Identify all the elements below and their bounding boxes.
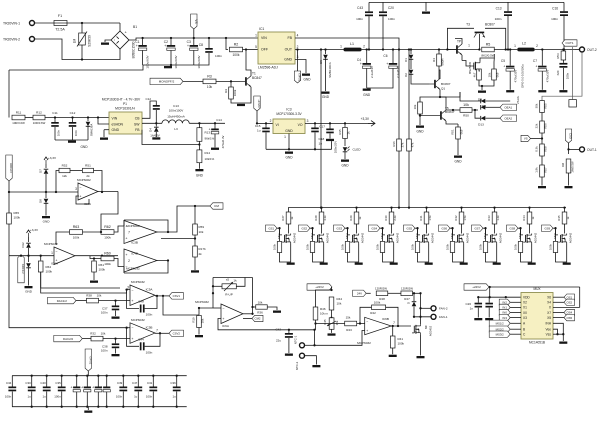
svg-text:T3: T3: [466, 23, 470, 27]
svg-text:100k: 100k: [14, 216, 21, 220]
ground: [493, 263, 501, 265]
svg-text:−: −: [366, 320, 368, 324]
resistor R12: [33, 115, 45, 120]
junction: [87, 116, 89, 118]
net label MONOFF/2: [150, 78, 183, 84]
svg-text:24V: 24V: [357, 292, 362, 296]
svg-text:C3: C3: [187, 40, 191, 44]
svg-text:0.3k: 0.3k: [535, 146, 539, 152]
wire C14: [214, 123, 216, 128]
junction: [329, 122, 331, 124]
svg-text:3: 3: [75, 187, 77, 191]
wire adc2: [8, 181, 10, 192]
svg-text:MF5: MF5: [415, 233, 419, 239]
svg-text:GS7: GS7: [474, 226, 480, 230]
svg-text:100u/63V: 100u/63V: [197, 54, 201, 68]
wire R7 top: [479, 69, 480, 71]
wire CM: [195, 205, 210, 207]
svg-text:OUT: OUT: [285, 48, 293, 52]
transistor MF6 AO3442: [455, 234, 464, 244]
svg-text:10k: 10k: [201, 318, 205, 323]
svg-text:100k: 100k: [99, 268, 106, 272]
wire C30 bottom: [31, 392, 33, 407]
net label CM: [210, 203, 223, 209]
wire: [488, 308, 490, 318]
terminal TR20VIN-2: [30, 37, 35, 42]
ground: [25, 286, 33, 288]
svg-text:100k: 100k: [376, 243, 380, 250]
wire R14 gnd: [198, 163, 200, 169]
capacitor C40: [43, 387, 51, 392]
svg-text:100n: 100n: [215, 54, 222, 58]
junction: [314, 322, 316, 324]
wire R45 gnd: [331, 329, 333, 333]
resistor R34g: [518, 242, 522, 253]
junction: [313, 329, 315, 331]
wire C37: [115, 301, 117, 306]
svg-text:R15: R15: [338, 129, 342, 135]
junction: [141, 37, 143, 39]
wire cell1 top: [288, 208, 290, 212]
wire GS2 pulldown: [312, 228, 314, 241]
svg-text:FAN-2: FAN-2: [439, 307, 448, 311]
resistor R30: [389, 212, 394, 224]
wire cell8 src gnd: [521, 244, 532, 263]
net label DAC1/2: [48, 297, 77, 303]
svg-text:T1: T1: [252, 72, 256, 76]
wire R36 gnd: [267, 307, 277, 310]
svg-text:OS4: OS4: [566, 311, 572, 315]
svg-text:R17b: R17b: [199, 247, 207, 251]
op-amp IC4B MCP6032: [124, 249, 157, 272]
ground: [474, 318, 482, 320]
wire D8 gnd: [45, 204, 47, 216]
svg-text:R50: R50: [463, 114, 469, 118]
svg-text:22u: 22u: [276, 339, 281, 343]
wire T1 collector: [246, 50, 251, 77]
svg-text:Q1: Q1: [441, 87, 445, 91]
svg-text:MF3: MF3: [345, 233, 349, 239]
junction: [314, 148, 316, 150]
svg-text:LM2596-ADJ: LM2596-ADJ: [258, 66, 278, 70]
wire to R43: [316, 323, 345, 325]
wire cell1 src gnd: [280, 244, 291, 263]
svg-text:~: ~: [113, 39, 117, 41]
junction: [106, 375, 108, 377]
wire C48 loop a: [127, 290, 139, 309]
wire R49 gnd: [419, 114, 421, 125]
svg-text:C8: C8: [199, 43, 203, 47]
ground: [112, 317, 120, 319]
bridge rectifier B1: [111, 30, 129, 50]
svg-text:+: +: [125, 236, 127, 240]
svg-text:15k: 15k: [346, 316, 351, 320]
svg-text:GND: GND: [454, 160, 462, 164]
svg-text:C1: C1: [135, 40, 139, 44]
wire R44 bot: [331, 310, 333, 318]
wire IC1 gnd: [295, 60, 306, 74]
transistor MF7 AO3442: [488, 234, 497, 244]
svg-text:R58: R58: [544, 146, 548, 152]
wire TP c: [455, 39, 462, 45]
junction: [76, 375, 78, 377]
svg-text:−: −: [131, 326, 133, 330]
svg-text:100k: 100k: [46, 270, 53, 274]
wire IC6A minus: [213, 307, 221, 309]
svg-text:MF1: MF1: [277, 233, 281, 239]
wire C18: [314, 123, 316, 127]
resistor R33: [492, 212, 497, 224]
wire R64 to IC5A minus: [41, 272, 130, 293]
wire cell1 drain: [288, 224, 290, 234]
wire: [76, 300, 87, 302]
wire: [366, 292, 371, 294]
resistor R10: [492, 69, 497, 80]
junction: [410, 48, 412, 50]
wire cell7 src gnd: [486, 244, 497, 263]
svg-text:4: 4: [297, 34, 299, 38]
svg-text:1.2k: 1.2k: [496, 215, 500, 221]
wire X out: [553, 306, 580, 308]
svg-text:+: +: [125, 253, 127, 257]
svg-text:BS250W: BS250W: [468, 62, 472, 74]
svg-text:C39: C39: [117, 381, 123, 385]
wire cell3 top: [356, 208, 358, 212]
svg-text:VS: VS: [524, 137, 528, 141]
capacitor C11: [51, 122, 59, 127]
transistor MF3 AO3442: [350, 234, 359, 244]
wire: [562, 68, 564, 90]
wire cell6 src gnd: [453, 244, 464, 263]
net label GS5: [404, 225, 416, 231]
svg-text:1.5k: 1.5k: [428, 215, 432, 221]
junction: [419, 114, 421, 116]
resistor R27g: [277, 242, 281, 253]
wire IC6A plus to NTC: [218, 319, 289, 330]
wire OS5: [553, 317, 564, 319]
junction: [390, 206, 392, 208]
junction: [278, 227, 280, 229]
diode D5 SMBJ40CA: [323, 55, 328, 60]
wire C31 bottom: [152, 392, 154, 407]
wire INH gnd: [553, 323, 563, 341]
svg-text:R61: R61: [99, 263, 105, 267]
net label MS2/2: [489, 326, 510, 332]
wire GS6 pulldown: [452, 228, 454, 241]
svg-text:−: −: [222, 307, 224, 311]
svg-text:X6: X6: [547, 296, 551, 300]
transistor MF8 AO3442: [523, 234, 532, 244]
ground: [164, 66, 172, 68]
svg-text:eSHDN: eSHDN: [112, 122, 124, 126]
wire Q1 emitter: [440, 90, 460, 98]
resistor R7: [477, 69, 482, 80]
junction: [446, 48, 448, 50]
svg-text:IC5A: IC5A: [146, 288, 154, 292]
resistor R41: [390, 336, 395, 348]
svg-text:100n: 100n: [74, 129, 78, 136]
svg-text:IC6A: IC6A: [222, 324, 230, 328]
transistor MF9 AO3442: [558, 234, 567, 244]
diode D13: [481, 116, 486, 121]
svg-text:R35: R35: [557, 215, 561, 221]
wire C15: [265, 123, 267, 127]
svg-text:+: +: [360, 62, 362, 66]
svg-text:7: 7: [156, 329, 158, 333]
wire CSO: [568, 143, 570, 154]
svg-text:VIN: VIN: [261, 36, 267, 40]
wire GS1 pulldown: [279, 228, 281, 241]
wire: [208, 38, 210, 48]
svg-text:MUX: MUX: [533, 287, 541, 291]
wire D12: [28, 237, 30, 242]
polarized capacitor C1: [136, 44, 147, 51]
junction: [392, 48, 394, 50]
svg-text:OUT-2: OUT-2: [587, 48, 597, 52]
capacitor C30: [28, 387, 36, 392]
svg-text:2.2u/63V: 2.2u/63V: [370, 66, 374, 78]
wire D3: [87, 118, 89, 122]
svg-text:+: +: [187, 44, 189, 48]
svg-text:+: +: [79, 194, 81, 198]
svg-text:10k: 10k: [413, 104, 417, 109]
svg-text:1.5k: 1.5k: [463, 215, 467, 221]
svg-text:GND: GND: [196, 174, 204, 178]
ground: [285, 354, 293, 356]
svg-text:C18: C18: [319, 137, 325, 141]
wire C31 top: [152, 376, 154, 387]
wire FB return: [142, 130, 199, 145]
net label CSV2: [169, 330, 184, 336]
svg-text:C12: C12: [145, 97, 151, 101]
wire T4 drain: [480, 54, 494, 61]
junction: [61, 375, 63, 377]
svg-text:1: 1: [51, 251, 53, 255]
net label p24V2 mux: [464, 284, 489, 290]
svg-text:GND: GND: [322, 95, 330, 99]
junction: [81, 58, 83, 60]
resistor R32g: [450, 242, 454, 253]
wire C4: [366, 50, 368, 64]
diode D2: [409, 70, 414, 75]
junction: [86, 406, 88, 408]
svg-text:SMAJ36A: SMAJ36A: [90, 124, 94, 137]
ground: [237, 104, 245, 106]
junction: [382, 48, 384, 50]
svg-text:10k: 10k: [463, 103, 469, 107]
svg-text:R55: R55: [544, 103, 548, 109]
resistor R38: [87, 298, 99, 303]
junction: [167, 231, 169, 233]
svg-text:1u: 1u: [172, 395, 176, 399]
junction: [288, 329, 290, 331]
wire C20: [382, 2, 384, 11]
op-amp IC3A MCP6002: [78, 183, 98, 200]
wire: [82, 49, 120, 60]
resistor R31g: [415, 242, 419, 253]
svg-text:BC847: BC847: [252, 76, 262, 80]
wire GS2: [310, 227, 313, 229]
wire FAN-1: [414, 316, 431, 318]
wire C44 loop a: [127, 328, 139, 347]
svg-text:1u: 1u: [257, 129, 261, 133]
junction: [419, 292, 421, 294]
junction: [296, 48, 298, 50]
wire IC4B to ref: [168, 239, 195, 261]
wire J1 up: [572, 47, 574, 100]
svg-text:100k: 100k: [233, 89, 237, 96]
wire C32 top: [97, 376, 99, 387]
wire NTC row: [289, 329, 315, 331]
wire IC3A to fb: [101, 192, 118, 233]
svg-text:10k/1%: 10k/1%: [205, 157, 215, 161]
wire C17: [329, 123, 331, 128]
svg-text:F1: F1: [58, 14, 62, 18]
junction: [556, 333, 558, 335]
wire GS4 gate: [383, 228, 386, 235]
wire cell4 drain: [391, 224, 393, 234]
wire DAC1: [99, 300, 131, 302]
wire R50 tap: [452, 110, 454, 117]
diode D8: [44, 199, 49, 204]
polarized capacitor C2: [164, 44, 175, 51]
svg-text:Vee: Vee: [546, 328, 552, 332]
resistor R43: [345, 321, 357, 326]
junction: [528, 206, 530, 208]
wire C42: [288, 330, 290, 333]
junction: [46, 406, 48, 408]
junction: [125, 288, 127, 290]
wire GS2 gate: [313, 228, 316, 235]
junction: [137, 375, 139, 377]
wire P1 gnd pin: [104, 129, 109, 131]
resistor R61: [92, 261, 97, 272]
diode D12: [26, 243, 31, 248]
wire: [35, 39, 83, 60]
junction: [425, 206, 427, 208]
wire FET src gnd: [420, 334, 422, 355]
wire R13-R14: [198, 141, 200, 150]
capacitor C44: [140, 342, 145, 350]
wire cell2 drain: [321, 224, 323, 234]
svg-text:FB: FB: [135, 128, 140, 132]
svg-text:100u/63V: 100u/63V: [146, 54, 150, 68]
svg-text:X0: X0: [523, 311, 527, 315]
svg-text:GND: GND: [284, 58, 292, 62]
net label OS5: [564, 314, 575, 320]
svg-text:R14: R14: [205, 151, 211, 155]
wire GS4: [380, 227, 383, 229]
svg-text:12k: 12k: [62, 174, 67, 178]
svg-text:100k: 100k: [73, 236, 80, 240]
wire GS9 gate: [556, 228, 559, 235]
junction: [193, 37, 195, 39]
wire cell9 drain: [564, 224, 566, 234]
junction: [413, 316, 415, 318]
svg-text:D13: D13: [478, 123, 484, 127]
svg-text:IC1: IC1: [259, 27, 264, 31]
svg-text:10k m: 10k m: [320, 312, 328, 316]
svg-text:GND: GND: [43, 220, 51, 224]
capacitor C13: [504, 11, 512, 16]
svg-text:100n: 100n: [146, 350, 153, 354]
junction: [408, 206, 410, 208]
junction: [45, 191, 47, 193]
wire fb vertical 2: [408, 50, 410, 140]
junction: [31, 375, 33, 377]
junction: [114, 337, 116, 339]
svg-text:120R/2W: 120R/2W: [375, 286, 387, 290]
ground: [460, 263, 468, 265]
wire GS8: [518, 227, 521, 229]
ground: [416, 126, 424, 128]
transistor MF10 AO3402: [412, 324, 421, 334]
wire left vertical 1: [8, 70, 10, 118]
wire Vss: [553, 333, 563, 335]
wire: [314, 133, 316, 150]
svg-text:C26: C26: [465, 302, 471, 306]
capacitor C48: [140, 305, 145, 313]
resistor R16: [397, 139, 402, 151]
svg-text:R3: R3: [207, 75, 212, 79]
wire IC1 FB: [295, 38, 399, 50]
wire cell2 src gnd: [313, 244, 324, 263]
junction: [198, 122, 200, 124]
ground: [328, 333, 336, 335]
op-amp IC6A MCP6032: [221, 304, 243, 324]
wire C11: [54, 118, 56, 123]
resistor R32: [459, 212, 464, 224]
wire cell6 drain: [461, 224, 463, 234]
svg-text:C4: C4: [357, 58, 361, 62]
svg-text:10R/0.6W: 10R/0.6W: [33, 121, 46, 125]
junction: [311, 227, 313, 229]
wire mux vdd drop: [489, 287, 491, 297]
wire: [412, 292, 420, 294]
svg-text:TR20VIN-2: TR20VIN-2: [3, 38, 20, 42]
junction: [288, 148, 290, 150]
wire cell8 top: [529, 208, 531, 212]
wire D2 to Q1 base: [411, 75, 429, 85]
svg-text:IC4A: IC4A: [51, 262, 59, 266]
wire ldo in: [256, 111, 258, 123]
wire: [70, 170, 82, 172]
ground: [195, 335, 203, 337]
wire OUT rail: [295, 49, 321, 51]
wire: [507, 16, 509, 50]
resistor R36: [256, 305, 268, 309]
wire: [563, 16, 565, 43]
svg-text:GS9: GS9: [544, 226, 550, 230]
svg-text:100n: 100n: [57, 129, 61, 136]
wire: [344, 152, 346, 159]
wire D1 chain: [410, 50, 412, 55]
svg-text:DAC1/2: DAC1/2: [57, 299, 68, 303]
svg-text:D4: D4: [149, 128, 153, 132]
svg-text:+: +: [136, 44, 138, 48]
transistor T3 BC807: [474, 32, 485, 38]
junction: [359, 322, 361, 324]
svg-text:R-UP: R-UP: [225, 293, 233, 297]
wire: [119, 23, 121, 31]
svg-text:R5: R5: [486, 42, 491, 46]
svg-text:1: 1: [340, 45, 342, 49]
svg-text:C43: C43: [357, 6, 363, 10]
junction: [81, 22, 83, 24]
net label IN0: [499, 309, 510, 315]
junction: [368, 48, 370, 50]
junction: [100, 231, 102, 233]
